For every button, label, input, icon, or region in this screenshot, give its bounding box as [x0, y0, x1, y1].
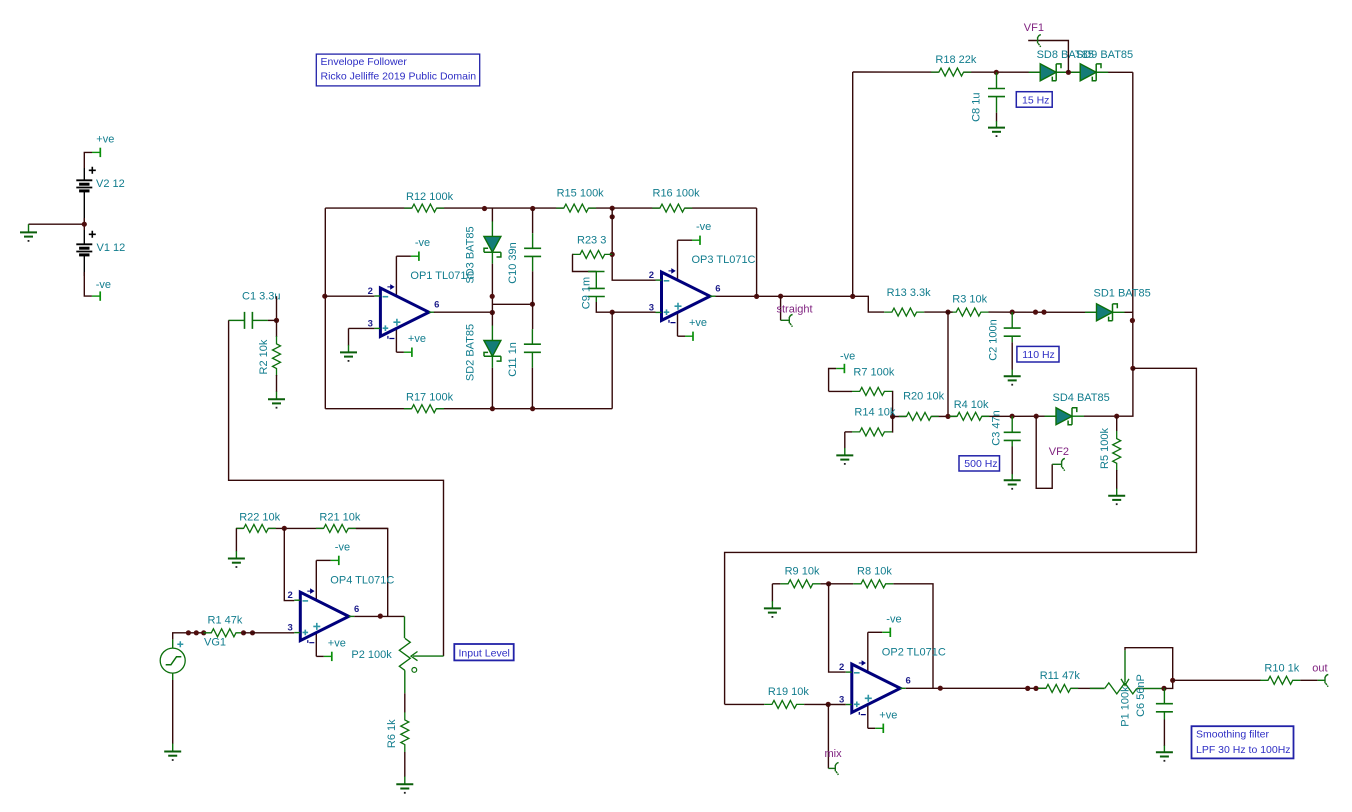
- svg-text:R15 100k: R15 100k: [557, 188, 605, 200]
- svg-text:2: 2: [649, 270, 654, 281]
- svg-text:LPF 30 Hz to 100Hz: LPF 30 Hz to 100Hz: [1196, 744, 1291, 756]
- svg-text:3: 3: [649, 302, 654, 313]
- svg-text:VF2: VF2: [1049, 446, 1069, 458]
- svg-text:VG1: VG1: [204, 637, 226, 649]
- svg-text:6: 6: [434, 300, 439, 311]
- svg-text:out: out: [1312, 663, 1327, 675]
- svg-text:+ve: +ve: [879, 709, 897, 721]
- svg-text:-ve: -ve: [886, 613, 901, 625]
- svg-text:R20 10k: R20 10k: [903, 390, 944, 402]
- svg-text:-ve: -ve: [696, 221, 711, 233]
- svg-text:P1 100k: P1 100k: [1120, 686, 1132, 727]
- svg-text:3: 3: [368, 318, 373, 329]
- svg-text:500 Hz: 500 Hz: [964, 458, 997, 470]
- svg-text:3: 3: [839, 694, 844, 705]
- svg-text:R18 22k: R18 22k: [935, 54, 976, 66]
- svg-text:C10 39n: C10 39n: [507, 242, 519, 284]
- svg-text:Input Level: Input Level: [459, 648, 510, 660]
- svg-text:R2 10k: R2 10k: [258, 339, 270, 374]
- svg-text:SD4 BAT85: SD4 BAT85: [1053, 392, 1110, 404]
- svg-text:R21 10k: R21 10k: [319, 512, 360, 524]
- svg-text:straight: straight: [777, 304, 813, 316]
- svg-text:R17 100k: R17 100k: [406, 392, 454, 404]
- svg-text:R10 1k: R10 1k: [1264, 663, 1299, 675]
- svg-text:+ve: +ve: [408, 333, 426, 345]
- svg-text:R19 10k: R19 10k: [768, 686, 809, 698]
- svg-text:Envelope Follower: Envelope Follower: [321, 56, 408, 68]
- svg-text:R5 100k: R5 100k: [1099, 428, 1111, 469]
- svg-text:R1 47k: R1 47k: [208, 615, 243, 627]
- svg-text:R13 3.3k: R13 3.3k: [887, 287, 932, 299]
- svg-text:V2 12: V2 12: [96, 178, 125, 190]
- svg-text:+ve: +ve: [328, 637, 346, 649]
- svg-text:R6 1k: R6 1k: [386, 719, 398, 748]
- svg-text:R7 100k: R7 100k: [853, 367, 894, 379]
- svg-text:R3 10k: R3 10k: [952, 293, 987, 305]
- svg-text:R9 10k: R9 10k: [785, 566, 820, 578]
- svg-text:6: 6: [354, 604, 359, 615]
- svg-text:110 Hz: 110 Hz: [1022, 349, 1055, 361]
- svg-text:15 Hz: 15 Hz: [1022, 94, 1049, 106]
- svg-text:R14 10k: R14 10k: [854, 407, 895, 419]
- svg-text:R4 10k: R4 10k: [954, 399, 989, 411]
- svg-text:2: 2: [288, 590, 293, 601]
- svg-text:2: 2: [839, 662, 844, 673]
- svg-text:SD9 BAT85: SD9 BAT85: [1076, 49, 1133, 61]
- svg-text:OP4 TL071C: OP4 TL071C: [330, 574, 394, 586]
- svg-text:Ricko Jelliffe 2019 Public Dom: Ricko Jelliffe 2019 Public Domain: [321, 71, 477, 83]
- svg-text:OP2 TL071C: OP2 TL071C: [882, 646, 946, 658]
- svg-text:R16 100k: R16 100k: [653, 188, 701, 200]
- svg-text:OP3 TL071C: OP3 TL071C: [692, 254, 756, 266]
- svg-text:6: 6: [906, 676, 911, 687]
- svg-text:R23 3: R23 3: [577, 235, 606, 247]
- svg-text:2: 2: [368, 286, 373, 297]
- svg-text:3: 3: [288, 623, 293, 634]
- svg-text:VF1: VF1: [1024, 22, 1044, 34]
- svg-text:SD3 BAT85: SD3 BAT85: [465, 226, 477, 283]
- svg-text:R12 100k: R12 100k: [406, 191, 454, 203]
- svg-text:C2 100n: C2 100n: [988, 319, 1000, 361]
- svg-text:+ve: +ve: [96, 134, 114, 146]
- svg-text:6: 6: [715, 284, 720, 295]
- svg-text:-ve: -ve: [96, 279, 111, 291]
- svg-text:-ve: -ve: [840, 350, 855, 362]
- svg-text:V1 12: V1 12: [97, 242, 126, 254]
- svg-text:R22 10k: R22 10k: [239, 512, 280, 524]
- svg-text:-ve: -ve: [335, 541, 350, 553]
- svg-text:C3 47n: C3 47n: [991, 410, 1003, 445]
- svg-text:P2 100k: P2 100k: [351, 649, 392, 661]
- svg-text:C6 56nP: C6 56nP: [1135, 674, 1147, 717]
- svg-text:mix: mix: [825, 748, 843, 760]
- svg-text:C1 3.3u: C1 3.3u: [242, 290, 281, 302]
- svg-text:R8 10k: R8 10k: [857, 566, 892, 578]
- svg-text:C11 1n: C11 1n: [507, 342, 519, 377]
- svg-text:-ve: -ve: [415, 237, 430, 249]
- svg-text:Smoothing filter: Smoothing filter: [1196, 729, 1269, 741]
- svg-text:+ve: +ve: [689, 317, 707, 329]
- svg-text:SD2 BAT85: SD2 BAT85: [465, 324, 477, 381]
- svg-text:C8 1u: C8 1u: [971, 93, 983, 122]
- svg-text:C9 1m: C9 1m: [581, 277, 593, 309]
- svg-text:SD1 BAT85: SD1 BAT85: [1094, 288, 1151, 300]
- svg-text:R11 47k: R11 47k: [1040, 670, 1081, 682]
